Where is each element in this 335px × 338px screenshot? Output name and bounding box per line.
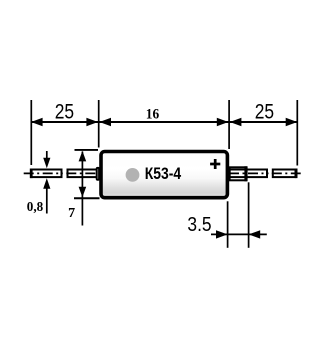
svg-text:К53-4: К53-4 xyxy=(145,164,182,183)
left lead centerline xyxy=(24,172,63,174)
left lead end cap xyxy=(30,169,33,179)
3.5 dimension line xyxy=(211,233,267,235)
right bushing (positive terminal seal) xyxy=(230,167,246,180)
svg-text:25: 25 xyxy=(255,100,274,124)
extension line x=297.3 (right lead end) xyxy=(296,100,298,166)
left lead segment 2 xyxy=(68,170,98,178)
arrowhead 16 left, tip x=99.4 pointing left xyxy=(99,118,111,127)
arrowhead right 25 left end, tip x=229.8 pointing left xyxy=(230,118,242,127)
3.5 right arrowhead pointing left xyxy=(249,230,261,238)
3.5 right extension line (bushing end) xyxy=(248,182,250,248)
extension line x=98.7 (body left) xyxy=(98,100,100,148)
right lead end cap xyxy=(295,169,298,179)
arrowhead left 25, tip x=31 pointing left xyxy=(31,118,43,127)
svg-text:7: 7 xyxy=(68,206,75,221)
arrowhead right 25 right end, tip x=297.3 pointing right xyxy=(286,118,298,127)
right lead segment 2 xyxy=(273,170,296,178)
index dot xyxy=(126,168,140,182)
right lead segment 1 xyxy=(230,170,267,178)
left collar (seal bead at body entry) xyxy=(97,168,99,180)
extension line x=31 (left lead end) xyxy=(30,100,32,165)
capacitor body xyxy=(101,152,227,198)
svg-text:16: 16 xyxy=(146,105,160,122)
dia 7 down arrowhead xyxy=(79,187,87,198)
left lead segment 1 xyxy=(31,170,62,178)
dia 7 vertical dimension line xyxy=(81,152,83,226)
polarity mark + xyxy=(214,159,217,169)
dia 7 up arrowhead xyxy=(79,151,87,162)
dia 0.8 lower arrow xyxy=(43,178,50,188)
dia 7 bottom tick xyxy=(74,197,100,199)
right lead centerline xyxy=(229,172,269,174)
3.5 left extension line (body edge) xyxy=(227,201,229,248)
svg-text:0,8: 0,8 xyxy=(27,200,43,215)
3.5 left arrowhead pointing right xyxy=(216,230,228,238)
arrowhead left 25 right end, tip x=98 pointing right xyxy=(86,118,98,127)
dia 0.8 upper arrow xyxy=(46,151,48,159)
svg-text:3.5: 3.5 xyxy=(187,214,211,236)
dimension line y=122 (spans 25 / 16 / 25) xyxy=(31,121,297,123)
bushing end cap xyxy=(244,166,247,181)
svg-text:25: 25 xyxy=(55,100,74,124)
arrowhead 16 right, tip x=228.4 pointing right xyxy=(217,118,229,127)
extension line x=229.1 (body right) xyxy=(228,100,230,149)
dia 7 top tick xyxy=(75,149,99,151)
